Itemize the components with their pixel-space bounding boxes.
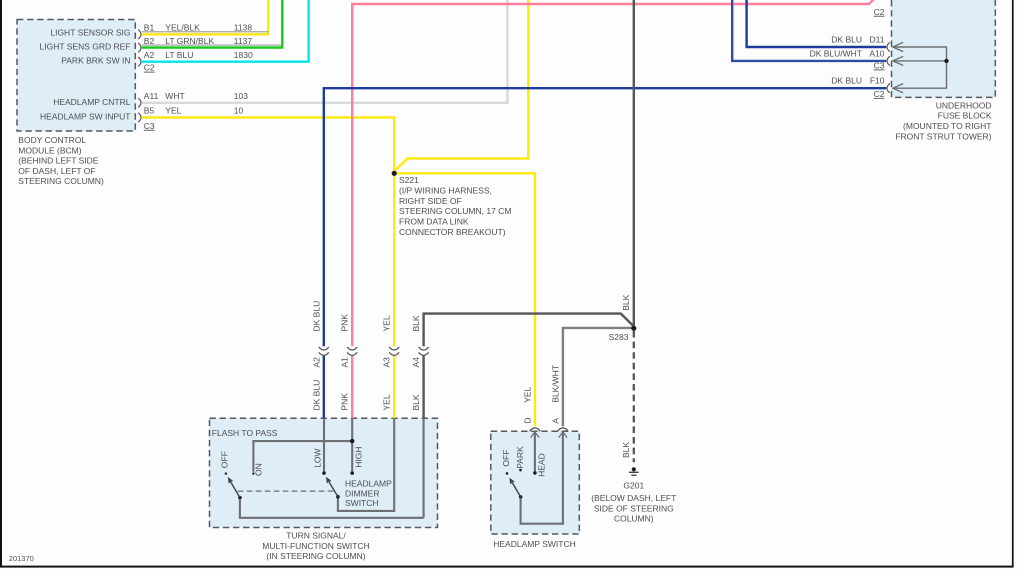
svg-text:DK BLU: DK BLU (831, 76, 862, 86)
svg-text:B2: B2 (144, 36, 155, 46)
svg-text:F10: F10 (870, 76, 885, 86)
svg-text:FROM DATA LINK: FROM DATA LINK (399, 217, 469, 227)
svg-text:PARK: PARK (515, 446, 525, 469)
svg-text:PARK BRK SW IN: PARK BRK SW IN (61, 56, 130, 66)
svg-text:PNK: PNK (340, 314, 350, 332)
svg-text:1138: 1138 (234, 23, 253, 33)
svg-text:STEERING COLUMN, 17 CM: STEERING COLUMN, 17 CM (399, 206, 511, 216)
svg-text:COLUMN): COLUMN) (614, 514, 654, 524)
svg-text:C3: C3 (874, 61, 885, 71)
svg-text:1137: 1137 (234, 36, 253, 46)
svg-text:LT GRN/BLK: LT GRN/BLK (165, 36, 214, 46)
svg-text:YEL/BLK: YEL/BLK (165, 23, 200, 33)
svg-text:(I/P WIRING HARNESS,: (I/P WIRING HARNESS, (399, 185, 492, 195)
svg-text:BODY CONTROL: BODY CONTROL (18, 135, 86, 145)
svg-text:TURN SIGNAL/: TURN SIGNAL/ (286, 530, 346, 540)
svg-text:YEL: YEL (523, 386, 533, 402)
svg-text:BLK/WHT: BLK/WHT (550, 365, 560, 403)
svg-text:C2: C2 (874, 7, 885, 17)
svg-text:BLK: BLK (411, 394, 421, 410)
svg-text:HEAD: HEAD (536, 453, 546, 477)
svg-text:FLASH TO PASS: FLASH TO PASS (212, 428, 278, 438)
svg-text:B5: B5 (144, 106, 155, 116)
svg-text:B1: B1 (144, 23, 155, 33)
svg-text:YEL: YEL (382, 315, 392, 331)
svg-text:DK BLU: DK BLU (311, 301, 321, 332)
svg-text:10: 10 (234, 106, 244, 116)
svg-text:1830: 1830 (234, 50, 253, 60)
svg-text:YEL: YEL (165, 106, 181, 116)
svg-text:MODULE (BCM): MODULE (BCM) (18, 145, 81, 155)
svg-text:PNK: PNK (340, 393, 350, 411)
svg-text:ON: ON (253, 463, 263, 476)
svg-text:S283: S283 (609, 332, 629, 342)
svg-text:D: D (523, 417, 533, 423)
svg-text:A4: A4 (411, 357, 421, 368)
svg-text:A1: A1 (340, 357, 350, 368)
svg-text:A11: A11 (144, 91, 159, 101)
svg-text:C3: C3 (144, 121, 155, 131)
svg-text:A: A (550, 418, 560, 424)
svg-text:A10: A10 (869, 49, 884, 59)
svg-text:WHT: WHT (165, 91, 184, 101)
svg-text:C2: C2 (874, 89, 885, 99)
svg-text:DK BLU/WHT: DK BLU/WHT (810, 49, 862, 59)
svg-text:(MOUNTED TO RIGHT: (MOUNTED TO RIGHT (903, 121, 991, 131)
svg-text:MULTI-FUNCTION SWITCH: MULTI-FUNCTION SWITCH (262, 541, 370, 551)
svg-text:DK BLU: DK BLU (311, 380, 321, 411)
svg-text:LOW: LOW (312, 448, 322, 467)
svg-text:SIDE OF STEERING: SIDE OF STEERING (594, 503, 674, 513)
svg-text:CONNECTOR BREAKOUT): CONNECTOR BREAKOUT) (399, 227, 506, 237)
svg-text:BLK: BLK (621, 442, 631, 458)
svg-text:DIMMER: DIMMER (345, 488, 379, 498)
svg-text:RIGHT SIDE OF: RIGHT SIDE OF (399, 196, 462, 206)
svg-text:LIGHT SENS GRD REF: LIGHT SENS GRD REF (40, 42, 131, 52)
svg-text:A3: A3 (382, 357, 392, 368)
svg-text:BLK: BLK (411, 315, 421, 331)
svg-text:(IN STEERING COLUMN): (IN STEERING COLUMN) (266, 551, 365, 561)
svg-text:D11: D11 (870, 35, 885, 45)
svg-text:OF DASH, LEFT OF: OF DASH, LEFT OF (18, 166, 95, 176)
svg-text:HEADLAMP SW INPUT: HEADLAMP SW INPUT (40, 112, 131, 122)
svg-text:201370: 201370 (9, 554, 34, 563)
svg-text:(BELOW DASH, LEFT: (BELOW DASH, LEFT (591, 493, 676, 503)
svg-text:HEADLAMP CNTRL: HEADLAMP CNTRL (53, 97, 131, 107)
svg-text:A2: A2 (311, 357, 321, 368)
svg-text:YEL: YEL (382, 394, 392, 410)
svg-text:A2: A2 (144, 50, 155, 60)
svg-text:G201: G201 (623, 480, 644, 490)
svg-text:LIGHT SENSOR SIG: LIGHT SENSOR SIG (50, 27, 130, 37)
svg-text:STEERING COLUMN): STEERING COLUMN) (18, 176, 104, 186)
svg-text:103: 103 (234, 91, 248, 101)
svg-text:OFF: OFF (220, 451, 230, 468)
svg-text:HEADLAMP: HEADLAMP (345, 479, 392, 489)
svg-text:BLK: BLK (621, 294, 631, 310)
svg-text:FUSE BLOCK: FUSE BLOCK (938, 111, 992, 121)
svg-text:HIGH: HIGH (353, 447, 363, 468)
svg-text:SWITCH: SWITCH (345, 498, 379, 508)
svg-text:OFF: OFF (501, 450, 511, 467)
svg-text:C2: C2 (144, 63, 155, 73)
svg-text:UNDERHOOD: UNDERHOOD (936, 100, 992, 110)
svg-text:(BEHIND LEFT SIDE: (BEHIND LEFT SIDE (18, 156, 98, 166)
svg-text:HEADLAMP SWITCH: HEADLAMP SWITCH (493, 539, 576, 549)
svg-text:LT BLU: LT BLU (165, 50, 193, 60)
svg-text:DK BLU: DK BLU (831, 35, 862, 45)
svg-text:FRONT STRUT TOWER): FRONT STRUT TOWER) (895, 132, 991, 142)
svg-text:S221: S221 (399, 175, 419, 185)
